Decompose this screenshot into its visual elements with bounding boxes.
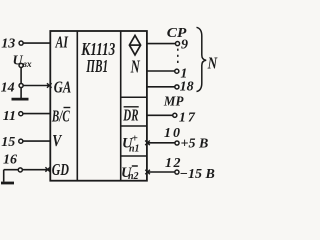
cell divider DR/Up1 xyxy=(121,125,147,127)
wire pin18 xyxy=(147,86,175,88)
wire pin9 xyxy=(147,43,176,45)
cell divider Up1/Up2 xyxy=(121,155,147,157)
svg-text:16: 16 xyxy=(3,153,17,168)
svg-text:18: 18 xyxy=(180,79,194,94)
wire pin16 to GD xyxy=(4,169,51,171)
wire stub to digital ground xyxy=(3,170,5,182)
pin 10 terminal xyxy=(175,141,179,145)
svg-text:DR: DR xyxy=(123,106,139,125)
svg-text:GA: GA xyxy=(54,78,72,97)
pin 1 terminal xyxy=(175,69,179,73)
svg-text:17: 17 xyxy=(179,111,197,126)
overline on DR xyxy=(124,106,139,108)
svg-text:14: 14 xyxy=(1,81,15,96)
pin 18 terminal xyxy=(175,85,179,89)
pin 17 terminal xyxy=(173,113,177,117)
wire pin1 xyxy=(147,70,175,72)
junction x Up2 xyxy=(145,170,150,175)
pin 13 terminal xyxy=(19,41,23,45)
svg-text:13: 13 xyxy=(1,36,15,51)
pin 16 terminal xyxy=(18,168,22,172)
pin 14 terminal xyxy=(19,83,23,87)
ground (analog) xyxy=(12,98,29,101)
pin 12 terminal xyxy=(175,170,179,174)
wire stub to analog ground xyxy=(20,88,22,99)
wire pin15 to V xyxy=(21,140,51,142)
svg-text:п2: п2 xyxy=(128,171,139,182)
junction x Up1 xyxy=(145,141,150,146)
wire pin17 xyxy=(147,114,173,116)
wire pin11 to B/C xyxy=(21,113,51,115)
IC U1 body outline xyxy=(50,31,147,181)
brace grouping outputs xyxy=(197,27,207,91)
ground (digital) xyxy=(1,182,14,185)
wire pin10 xyxy=(147,142,175,144)
pin 11 terminal xyxy=(19,112,23,116)
ADC diamond symbol xyxy=(129,35,140,55)
svg-text:п1: п1 xyxy=(129,143,140,154)
junction x GD xyxy=(45,167,50,172)
svg-text:+: + xyxy=(132,133,138,145)
junction x GA xyxy=(47,83,52,88)
svg-text:−15 В: −15 В xyxy=(180,167,215,182)
svg-text:МР: МР xyxy=(163,95,184,110)
pin 9 terminal xyxy=(175,42,179,46)
pin 15 terminal xyxy=(19,139,23,143)
IC column divider right xyxy=(120,31,122,181)
svg-text:+5 В: +5 В xyxy=(181,137,209,152)
IC column divider left xyxy=(76,31,78,181)
svg-text:AI: AI xyxy=(55,32,69,51)
cell divider N/DR xyxy=(121,96,147,98)
minus over p2 xyxy=(132,165,138,167)
svg-text:10: 10 xyxy=(164,126,182,141)
dashed bus continuation xyxy=(177,49,179,64)
wire Uvx to pin14 node xyxy=(20,68,22,84)
overline on C xyxy=(64,107,71,109)
svg-text:9: 9 xyxy=(181,37,188,52)
svg-text:11: 11 xyxy=(3,109,16,124)
wire pin12 xyxy=(147,171,175,173)
wire pin13 to AI xyxy=(21,42,50,44)
svg-text:N: N xyxy=(207,54,218,73)
svg-text:N: N xyxy=(130,56,141,76)
Uvx terminal xyxy=(19,63,23,67)
wire pin14 to GA xyxy=(21,85,50,87)
svg-text:V: V xyxy=(52,131,62,150)
svg-text:ПВ1: ПВ1 xyxy=(86,56,108,76)
svg-text:15: 15 xyxy=(1,135,15,150)
svg-text:B/C: B/C xyxy=(51,106,70,125)
svg-text:GD: GD xyxy=(52,160,69,179)
